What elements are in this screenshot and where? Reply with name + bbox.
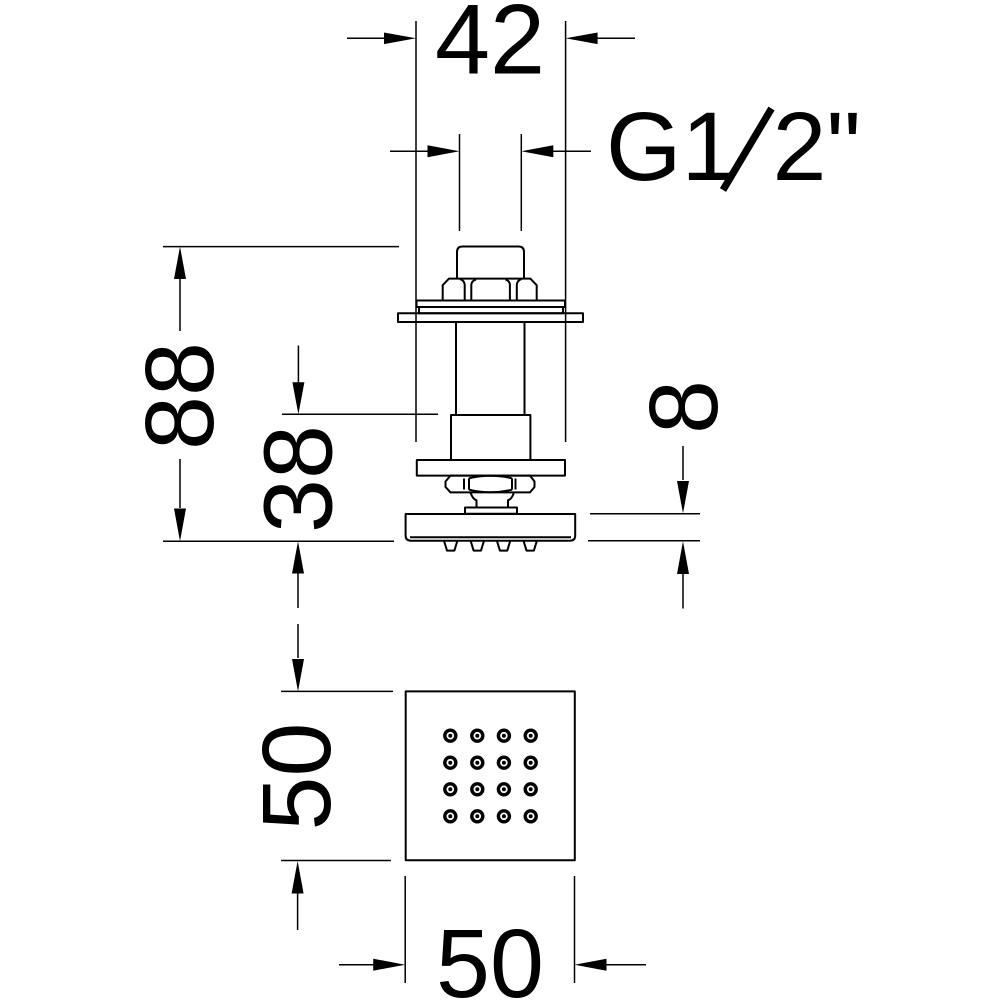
dim 50 bottom left arrow	[339, 964, 374, 966]
svg-text:42: 42	[435, 0, 545, 95]
side view: collar	[465, 508, 517, 514]
projection arrow pointing down to front view	[297, 624, 299, 658]
side view: body cylinder	[456, 322, 525, 415]
side view: tapered neck	[471, 492, 515, 507]
tick line 38 top reference y414	[282, 413, 438, 415]
dim 88 top arrow	[174, 247, 186, 279]
extension line 42 right	[565, 21, 567, 442]
extension line thread left	[459, 134, 461, 231]
svg-text:2": 2"	[773, 92, 861, 201]
side view: upper hex nut	[443, 279, 537, 301]
dim 38 bottom arrow (outside, pointing up)	[292, 541, 304, 573]
dim line 42 right arrow	[597, 37, 635, 39]
side view: threaded top block	[457, 247, 524, 280]
tick line 8 bottom right	[588, 540, 700, 542]
dim 88 bottom arrow	[179, 459, 181, 508]
extension line 42 left	[415, 21, 417, 442]
side view: flange	[417, 460, 565, 476]
side view: second washer plate	[419, 307, 563, 313]
dim 50 left bottom arrow (below square, pointing up)	[292, 861, 304, 894]
front view: square faceplate	[406, 691, 575, 860]
side view: backnut washer plate	[417, 301, 566, 308]
side view: nozzle 3	[497, 541, 510, 551]
front view: nozzle dots 4x4 grid	[445, 730, 536, 822]
side view: lower hex nut	[446, 476, 535, 493]
tick line front square top y691	[281, 690, 393, 692]
dim line 42 left arrow	[347, 37, 385, 39]
svg-text:8: 8	[629, 380, 738, 434]
tick line 8 top right	[590, 513, 700, 515]
svg-text:50: 50	[242, 723, 351, 831]
side view: lower block	[451, 415, 530, 460]
extension line thread right	[520, 134, 522, 231]
dim line thread left arrow	[390, 150, 428, 152]
dim 8 bottom arrow	[677, 541, 689, 574]
dim line thread right arrow	[553, 150, 591, 152]
side view: nozzle 4	[524, 541, 537, 551]
extension line 50 bottom left	[404, 876, 406, 983]
svg-text:G1: G1	[606, 92, 735, 201]
extension line 50 bottom right	[574, 876, 576, 983]
svg-text:50: 50	[436, 909, 544, 1000]
svg-text:38: 38	[244, 425, 353, 533]
side view: nozzle 1	[444, 541, 457, 551]
side view: faceplate	[406, 514, 576, 541]
dim 8 top arrow	[682, 446, 684, 480]
side view: wall flange plate	[398, 313, 583, 322]
tick line front square bottom y860	[281, 860, 391, 862]
dim 38 top arrow (outside, pointing down)	[297, 346, 299, 384]
tick line bottom reference y541	[163, 540, 394, 542]
tick line top reference y247	[163, 246, 399, 248]
svg-text:88: 88	[125, 342, 234, 450]
dim 50 bottom right arrow	[606, 964, 646, 966]
side view: nozzle 2	[471, 541, 484, 551]
